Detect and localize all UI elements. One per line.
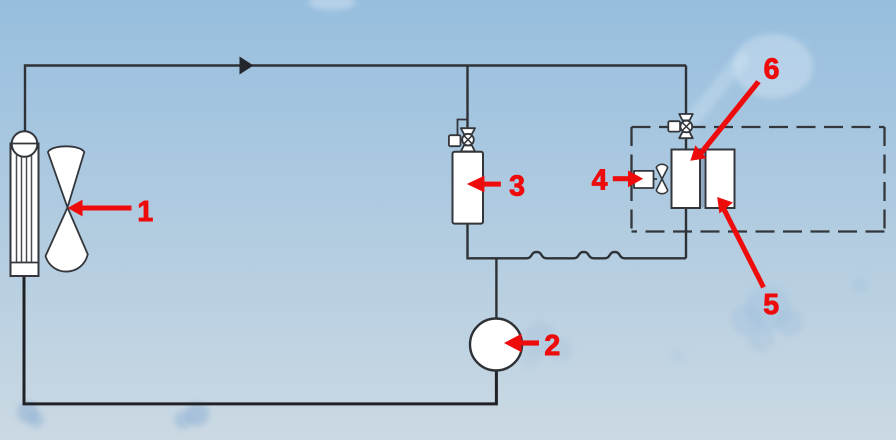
svg-text:2: 2 [544, 330, 560, 362]
expansion valve V2 (above plate 6) [668, 114, 693, 138]
fan 1 blades [46, 146, 88, 271]
wire: condenser top riser and main top run [25, 66, 686, 133]
svg-text:1: 1 [137, 196, 153, 228]
flow arrowhead on top wire [240, 57, 254, 75]
condenser C body (component 1 coil) [11, 131, 39, 276]
svg-text:5: 5 [763, 289, 779, 321]
wire: compressor to bottom return run [24, 276, 496, 404]
valve ball [680, 121, 692, 133]
condenser top dome [12, 131, 38, 157]
shaded slot between plates [701, 150, 705, 207]
red callout arrow 2 [504, 334, 539, 352]
condenser fins [17, 145, 32, 263]
fan 4 blades [656, 164, 667, 193]
valve top funnel [461, 128, 475, 134]
valve handle block [668, 121, 680, 131]
receiver tank 3 [453, 152, 484, 224]
wire: branch down to receiver valve [466, 66, 468, 129]
valve handle block [449, 135, 461, 146]
svg-text:6: 6 [764, 53, 780, 85]
condenser top edge line across dome [11, 143, 39, 145]
valve top funnel [679, 114, 693, 120]
red callout arrow 1 [68, 200, 132, 217]
compressor 2 [470, 319, 522, 371]
svg-text:3: 3 [509, 170, 525, 202]
wire: pilot jog at receiver valve [458, 120, 468, 137]
blob behind label 5 [745, 285, 791, 331]
halo around label 6 and its arrow [733, 34, 813, 98]
valve bottom funnel [679, 132, 693, 138]
red callout arrow 3 [467, 176, 501, 193]
red callout arrow 4 [613, 170, 643, 187]
fan motor 4 [634, 171, 657, 188]
dashed enclosure box (cold room boundary) [632, 127, 885, 232]
red callout arrow 6 (diagonal down-left) [690, 80, 760, 161]
red callout arrow 5 (diagonal up-left) [717, 197, 766, 289]
condenser bottom header line [11, 262, 38, 264]
wire: tee down to compressor [495, 258, 497, 319]
evaporator plate 6 [672, 150, 701, 209]
valve ball [462, 134, 474, 146]
wire: expansion valve down through evaporator to bottom run [685, 138, 687, 258]
wire: receiver tank down to mid run [466, 224, 468, 258]
evaporator plate 5 [706, 150, 735, 209]
receiver valve V1 (above tank 3) [449, 128, 475, 151]
wire: mid horizontal run with flex hops [466, 252, 686, 258]
wire: right riser down to expansion valve [685, 66, 687, 115]
svg-text:4: 4 [592, 164, 608, 196]
valve bottom funnel [461, 145, 475, 151]
